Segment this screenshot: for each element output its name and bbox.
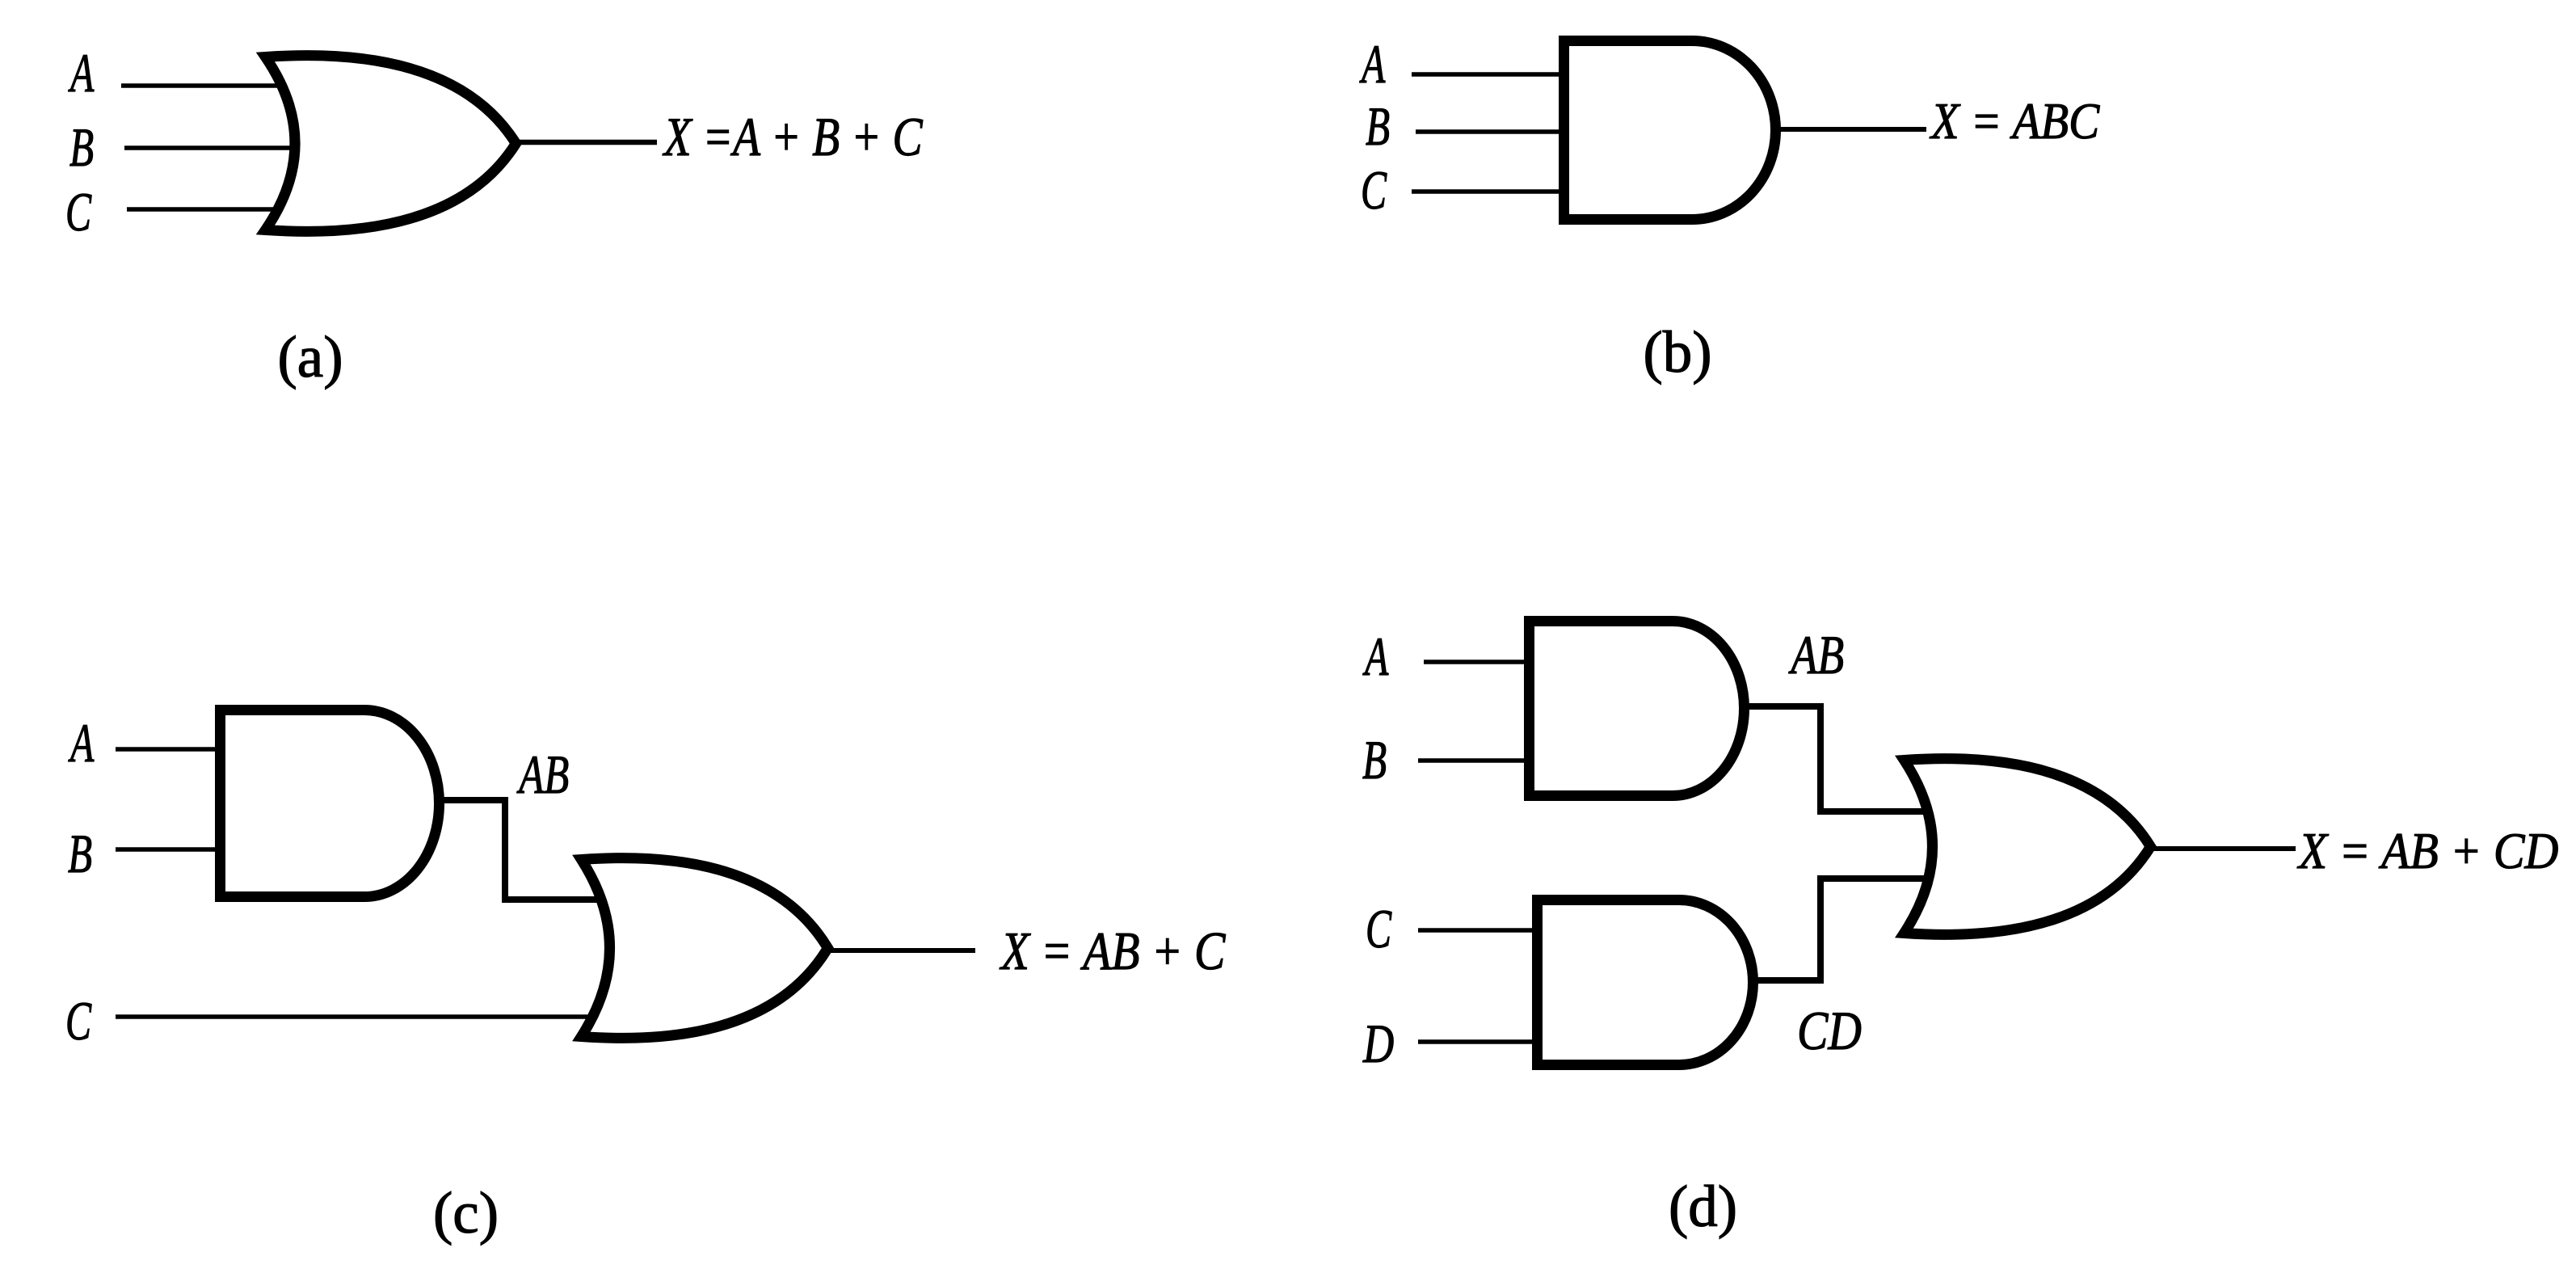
svg-text:A: A xyxy=(68,712,94,773)
svg-text:B: B xyxy=(69,116,94,178)
svg-text:B: B xyxy=(1362,729,1387,790)
svg-text:A: A xyxy=(68,42,94,103)
svg-text:(d): (d) xyxy=(1669,1174,1737,1239)
svg-text:B: B xyxy=(1366,95,1390,157)
svg-text:X = ABC: X = ABC xyxy=(1929,93,2100,150)
svg-text:AB: AB xyxy=(1788,624,1844,685)
svg-text:X =A + B + C: X =A + B + C xyxy=(662,106,923,167)
svg-text:C: C xyxy=(65,990,91,1052)
svg-text:X = AB + CD: X = AB + CD xyxy=(2296,823,2558,879)
svg-text:AB: AB xyxy=(516,744,569,805)
svg-text:(b): (b) xyxy=(1643,319,1711,385)
svg-text:C: C xyxy=(65,181,91,242)
svg-text:(a): (a) xyxy=(277,324,343,390)
svg-text:C: C xyxy=(1361,159,1387,221)
svg-text:A: A xyxy=(1362,626,1388,687)
svg-text:B: B xyxy=(68,823,92,884)
svg-text:C: C xyxy=(1366,898,1391,959)
svg-text:D: D xyxy=(1362,1013,1394,1074)
svg-text:X = AB + C: X = AB + C xyxy=(999,921,1226,981)
svg-text:(c): (c) xyxy=(433,1180,499,1245)
svg-text:A: A xyxy=(1359,33,1385,95)
svg-text:CD: CD xyxy=(1797,1000,1862,1061)
